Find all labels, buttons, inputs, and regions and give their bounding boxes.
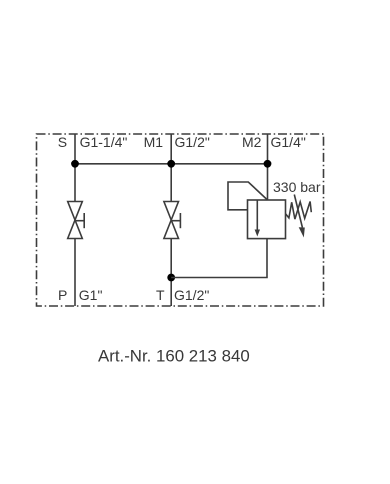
relief valve U1 pilot line	[228, 182, 268, 210]
svg-text:G1/2": G1/2"	[174, 287, 209, 303]
svg-text:Art.-Nr. 160 213 840: Art.-Nr. 160 213 840	[98, 346, 250, 365]
relief valve U1 flow arrow	[255, 200, 260, 237]
enclosure dashed boundary	[37, 134, 324, 306]
wire port P vertical	[74, 239, 76, 307]
relief valve U1 adjustment arrow	[294, 195, 305, 238]
node T junction	[167, 274, 175, 282]
svg-text:M1: M1	[144, 134, 164, 150]
svg-text:G1/4": G1/4"	[271, 134, 306, 150]
node M2 junction	[264, 160, 272, 168]
wire relief valve outlet to T	[171, 239, 267, 278]
node M1 junction	[167, 160, 175, 168]
svg-text:330 bar: 330 bar	[273, 179, 321, 195]
wire top bus horizontal	[75, 163, 268, 165]
wire port S vertical	[74, 134, 76, 202]
wire port T vertical	[170, 239, 172, 307]
shutoff valve V2	[164, 202, 181, 239]
svg-text:S: S	[58, 134, 67, 150]
relief valve U1 body	[248, 200, 286, 239]
svg-text:G1/2": G1/2"	[175, 134, 210, 150]
relief valve U1 spring	[286, 202, 312, 220]
svg-text:G1-1/4": G1-1/4"	[80, 134, 128, 150]
svg-text:T: T	[156, 287, 165, 303]
svg-text:P: P	[58, 287, 67, 303]
wire port M2 vertical	[267, 134, 269, 200]
wire port M1 vertical	[170, 134, 172, 202]
node S junction	[71, 160, 79, 168]
shutoff valve V1	[68, 202, 85, 239]
svg-text:G1": G1"	[79, 287, 103, 303]
svg-text:M2: M2	[242, 134, 262, 150]
